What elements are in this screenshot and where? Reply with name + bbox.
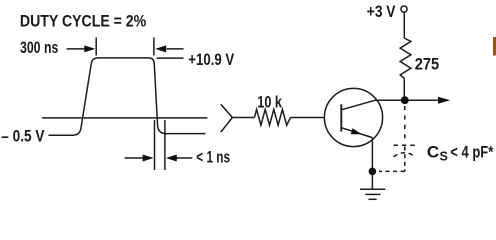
- node dot (output node): [401, 96, 409, 104]
- wire chevron to resistor R1: [232, 117, 254, 119]
- transistor Q1 collector line: [341, 100, 375, 110]
- svg-text:S: S: [440, 150, 448, 164]
- transistor Q1 base bar: [340, 104, 342, 131]
- resistor 275: [400, 38, 411, 79]
- page edge artifact (orange bar): [493, 37, 496, 56]
- tick mark right (pulse top end): [153, 38, 155, 56]
- ground symbol: [360, 189, 385, 199]
- svg-text:300 ns: 300 ns: [20, 38, 58, 57]
- transistor Q1 emitter line with arrow: [341, 128, 372, 138]
- wire emitter down to ground: [371, 138, 373, 190]
- svg-text:275: 275: [415, 55, 439, 74]
- pulse waveform: [48, 58, 205, 135]
- input chevron symbol: [221, 104, 233, 132]
- transistor Q1 circle: [324, 88, 382, 146]
- svg-text:DUTY CYCLE = 2%: DUTY CYCLE = 2%: [20, 11, 146, 30]
- svg-text:– 0.5 V: – 0.5 V: [1, 127, 45, 146]
- dashed wire capacitor to emitter junction: [379, 170, 405, 172]
- tick mark right (fall time): [164, 120, 166, 170]
- resistor 10 k: [254, 109, 290, 125]
- capacitor CS curved bottom plate (dashed): [394, 153, 416, 157]
- output arrow: [438, 97, 450, 104]
- dimension arrow left (< 1 ns): [125, 155, 154, 162]
- waveform 0V axis line: [42, 117, 207, 119]
- dimension arrow left (300 ns): [67, 45, 96, 52]
- capacitor CS top plate (dashed): [394, 144, 416, 146]
- leader line +10.9 V: [157, 57, 184, 59]
- svg-text:+3 V: +3 V: [367, 2, 396, 21]
- svg-text:< 4 pF*: < 4 pF*: [450, 143, 493, 162]
- junction dot on emitter: [369, 168, 377, 176]
- wire resistor to transistor base: [290, 117, 324, 119]
- svg-text:< 1 ns: < 1 ns: [196, 147, 230, 166]
- wire collector to output node: [375, 99, 439, 101]
- tick mark left (fall time): [154, 120, 156, 170]
- wire resistor 275 to node: [403, 79, 405, 101]
- dashed wire node to capacitor CS: [404, 106, 406, 142]
- label CS < 4 pF*: [427, 143, 494, 164]
- dimension arrow right (< 1 ns): [166, 155, 193, 162]
- svg-text:10 k: 10 k: [257, 93, 282, 112]
- dimension arrow right (300 ns): [155, 45, 183, 52]
- svg-text:C: C: [427, 143, 439, 162]
- dashed wire capacitor CS bottom lead: [404, 147, 406, 172]
- svg-text:+10.9 V: +10.9 V: [188, 50, 234, 69]
- tick mark left (pulse top start): [95, 38, 97, 56]
- supply terminal circle +3 V: [401, 6, 407, 12]
- wire terminal to resistor 275: [403, 12, 405, 38]
